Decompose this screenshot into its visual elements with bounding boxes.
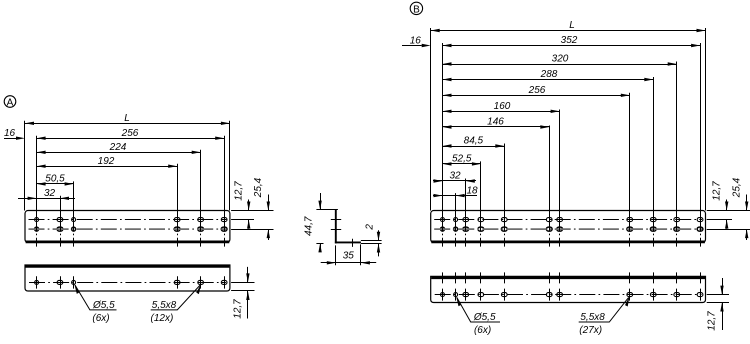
svg-text:5,5x8: 5,5x8 [580,312,605,323]
dimension 288 variant B [443,79,654,81]
dimension 192 variant A [37,166,178,168]
front view B row1 hole 10 (slot 5,5x8) [674,218,680,222]
svg-text:146: 146 [487,117,504,128]
svg-text:12,7: 12,7 [233,299,244,319]
front view A row2 hole 6 (slot 5,5x8) [221,227,227,231]
dimension 12,7 bottom A [247,267,249,283]
dimension 146 variant B [443,126,550,128]
bottom view B upper column tick 3 [465,272,467,283]
bottom view B hole centermark 3 [465,289,467,301]
extension line hole5 A [200,150,202,211]
dimension 12,7 bottom B [722,278,724,295]
dimension 224 variant A [37,152,201,154]
front view A row2 hole 1 (round Dia5,5) [35,227,39,231]
front view A row2 hole 5 (slot 5,5x8) [198,227,204,231]
front view B hole column centerline 10 [676,211,678,247]
extension line hole8 B [629,93,631,211]
svg-text:5,5x8: 5,5x8 [152,300,177,311]
svg-text:160: 160 [494,101,511,112]
front view row1 centerline B [434,219,702,221]
bottom view B hole 3 (slot 5,5x8) [463,293,469,297]
front view B row2 hole 3 (slot 5,5x8) [463,227,469,231]
bottom view B hole 8 (slot 5,5x8) [627,293,633,297]
svg-text:25,4: 25,4 [253,177,264,198]
extension line hole2 B [455,193,457,211]
svg-text:320: 320 [552,54,569,65]
front view A row1 hole 3 (round Dia5,5) [72,218,76,222]
svg-text:Ø5,5: Ø5,5 [473,312,496,323]
svg-text:(12x): (12x) [151,313,174,324]
bottom view thick top edge A [26,265,230,268]
bottom view A hole 2 (slot 5,5x8) [57,280,63,284]
bottom view A hole centermark 5 [200,276,202,288]
bottom view B hole 5 (slot 5,5x8) [501,293,507,297]
svg-text:35: 35 [343,250,355,261]
leader slot 5,5x8 callout A [151,285,201,310]
front view B hole column centerline 7 [559,211,561,247]
dimension 44,7 section [320,193,322,210]
svg-text:192: 192 [98,156,115,167]
svg-text:Ø5,5: Ø5,5 [92,300,115,311]
front view B row1 hole 7 (slot 5,5x8) [557,218,563,222]
tick top edge right B [707,210,750,212]
front view B hole column centerline 9 [653,211,655,247]
front view outline B [431,211,706,243]
dimension 160 variant B [443,111,560,113]
section tick bottom for 2 [361,243,382,245]
tick row1 right B [707,219,732,221]
front view B row2 hole 6 (slot 5,5x8) [546,227,552,231]
dimension L variant A [25,123,230,125]
front view B row2 hole 10 (slot 5,5x8) [674,227,680,231]
bottom view outline B [431,276,706,302]
front view B row2 hole 4 (slot 5,5x8) [478,227,484,231]
dimension 256 variant B [443,95,630,97]
extension line right edge B [705,28,707,211]
dimension 35 section [321,262,377,264]
front view A row1 hole 2 (slot 5,5x8) [57,218,63,222]
front view B row1 hole 8 (slot 5,5x8) [627,218,633,222]
svg-text:32: 32 [44,188,56,199]
dimension 12,7 front B [726,200,728,211]
front view B hole column centerline 5 [504,211,506,247]
svg-text:L: L [569,20,575,31]
bottom view thick top edge B [431,276,705,279]
tick hole row right bottom B [707,294,729,296]
dimension 256 variant A [37,138,225,140]
front view A row1 hole 1 (round Dia5,5) [35,218,39,222]
section tick bottom for 44,7 [316,243,323,245]
svg-text:256: 256 [121,128,139,139]
bottom view B upper column tick 1 [442,272,444,283]
section vertical leg [335,210,337,244]
bottom view B upper column tick 8 [629,272,631,283]
svg-text:44,7: 44,7 [303,216,314,236]
bottom view B hole 2 (round Dia5,5) [454,293,458,297]
dimension 16 variant B [402,45,422,47]
front view B row1 hole 1 (round Dia5,5) [441,218,445,222]
extension line hole5 B [504,144,506,212]
leader diameter 5,5 callout A [75,285,117,310]
extension line hole10 B [676,62,678,212]
front view A hole column centerline 3 [73,211,75,247]
front view B hole column centerline 4 [480,211,482,247]
bottom view B hole 4 (slot 5,5x8) [478,293,484,297]
front view B row1 hole 4 (slot 5,5x8) [478,218,484,222]
front view B row2 hole 8 (slot 5,5x8) [627,227,633,231]
svg-text:(6x): (6x) [474,325,491,336]
front view B row2 hole 2 (round Dia5,5) [454,227,458,231]
bottom view B hole centermark 6 [549,289,551,301]
bottom view centerline A [29,282,226,284]
svg-text:288: 288 [540,69,558,80]
bottom view A hole centermark 6 [224,276,226,288]
svg-text:A: A [7,97,14,108]
extension line hole6 A [224,136,226,211]
front view row2 centerline A (gray) [29,228,227,230]
front view A hole column centerline 1 [36,211,38,247]
front view A row1 hole 5 (slot 5,5x8) [198,218,204,222]
section hole tick row2 [331,229,341,231]
bottom view B hole centermark 8 [629,289,631,301]
front view B row2 hole 9 (slot 5,5x8) [650,227,656,231]
tick hole row right bottom A [231,282,254,284]
bottom view A hole 3 (round Dia5,5) [72,280,76,284]
bottom view B hole centermark 10 [676,289,678,301]
front view B row1 hole 3 (slot 5,5x8) [463,218,469,222]
extension line hole2 A [60,196,62,211]
dimension 25,4 front B [746,195,748,211]
bottom view A hole 1 (round Dia5,5) [35,280,39,284]
front view B row2 hole 1 (round Dia5,5) [441,227,445,231]
front view B row1 hole 5 (slot 5,5x8) [501,218,507,222]
front view B hole column centerline 11 [700,211,702,247]
svg-text:25,4: 25,4 [731,177,742,198]
dimension 52,5 variant B [443,163,481,165]
bottom view B hole 1 (round Dia5,5) [441,293,445,297]
front view A hole column centerline 2 [60,211,62,247]
section horizontal leg [335,241,361,243]
extension line hole4 B [480,161,482,211]
bottom view B hole centermark 9 [653,289,655,301]
extension line hole7 B [559,110,561,212]
svg-text:18: 18 [466,185,478,196]
front view B hole column centerline 8 [629,211,631,247]
front view B row2 hole 11 (slot 5,5x8) [697,227,703,231]
dimension 320 variant B [443,64,677,66]
tick top edge right A [231,210,273,212]
bottom view centerline B [435,294,702,296]
extension line hole11 B [700,43,702,211]
front view row1 centerline A [29,219,227,221]
dimension 32 variant B [433,180,476,182]
bottom view B upper column tick 9 [653,272,655,283]
svg-text:2: 2 [364,224,375,231]
svg-text:84,5: 84,5 [464,136,484,147]
section extension line right for 35 [360,244,362,265]
tick row2 right B [707,229,750,231]
section tick top for 2 [361,240,382,242]
bottom view A hole 6 (slot 5,5x8) [221,280,227,284]
bottom view B hole 7 (slot 5,5x8) [557,293,563,297]
front view A hole column centerline 6 [224,211,226,247]
bottom view B hole 9 (slot 5,5x8) [650,293,656,297]
front view B row2 hole 7 (slot 5,5x8) [557,227,563,231]
extension line hole3 A [73,181,75,211]
front view B row1 hole 9 (slot 5,5x8) [650,218,656,222]
front view B row1 hole 6 (slot 5,5x8) [546,218,552,222]
bottom view B upper column tick 7 [559,272,561,283]
svg-text:52,5: 52,5 [452,154,472,165]
bottom view B upper column tick 4 [480,272,482,283]
variant label A (circled) [4,96,16,109]
bottom view A hole centermark 3 [73,276,75,288]
extension line hole3 B [465,179,467,212]
front view B hole column centerline 3 [465,211,467,247]
tick bottom edge right bottom A [231,290,254,292]
bottom view B hole centermark 11 [700,289,702,301]
svg-text:12,7: 12,7 [707,311,718,331]
front view row2 centerline B (gray) [434,228,702,230]
svg-text:352: 352 [561,35,578,46]
bottom view B hole centermark 5 [504,289,506,301]
leader diameter 5,5 callout B [457,297,500,322]
svg-text:256: 256 [528,85,546,96]
dimension 18 variant B [433,195,477,197]
tick row2 right A [231,229,273,231]
front view B hole column centerline 2 [455,211,457,247]
svg-text:16: 16 [410,35,422,46]
svg-text:16: 16 [4,128,16,139]
bottom view B hole centermark 2 [455,289,457,301]
svg-text:50,5: 50,5 [45,174,65,185]
extension line hole6 B [549,126,551,212]
front view A row2 hole 3 (round Dia5,5) [72,227,76,231]
bottom view B hole 10 (slot 5,5x8) [674,293,680,297]
bottom view B hole centermark 1 [442,289,444,301]
bottom view B upper column tick 11 [700,272,702,283]
bottom view outline A [25,265,230,291]
front view A row2 hole 4 (slot 5,5x8) [174,227,180,231]
front view B row1 hole 11 (slot 5,5x8) [697,218,703,222]
leader slot 5,5x8 callout B [579,297,629,322]
section tick top for 44,7 [316,209,338,211]
svg-text:L: L [124,113,130,124]
extension line right edge A [229,121,231,211]
dimension 50,5 variant A [37,183,74,185]
bottom view B upper column tick 10 [676,272,678,283]
front view A row1 hole 4 (slot 5,5x8) [174,218,180,222]
section hole tick row1 [331,219,341,221]
front view B row2 hole 5 (slot 5,5x8) [501,227,507,231]
dimension 32 variant A [18,198,75,200]
svg-text:32: 32 [449,171,461,182]
variant label B (circled) [410,2,422,15]
dimension 16 variant A [4,138,16,140]
tick bottom edge right bottom B [707,302,729,304]
bottom view A hole 4 (slot 5,5x8) [174,280,180,284]
bottom view A hole centermark 1 [36,276,38,288]
bottom view B upper column tick 6 [549,272,551,283]
front view B hole column centerline 6 [549,211,551,247]
dimension 25,4 front A [268,195,270,211]
extension line left edge B [430,28,432,211]
bottom view B hole centermark 4 [480,289,482,301]
section hole tick horizontal leg [352,239,354,247]
dimension 84,5 variant B [443,146,505,148]
svg-text:(27x): (27x) [579,325,602,336]
extension line hole1 A [36,136,38,211]
bottom view A hole centermark 2 [60,276,62,288]
front view A hole column centerline 5 [200,211,202,247]
bottom view B upper column tick 5 [504,272,506,283]
svg-text:12,7: 12,7 [711,181,722,201]
bottom view B hole 11 (slot 5,5x8) [697,293,703,297]
dimension 352 variant B [443,45,701,47]
svg-text:B: B [413,4,420,15]
dimension 12,7 front A [248,200,250,211]
extension line hole9 B [653,77,655,211]
bottom view A hole centermark 4 [177,276,179,288]
front view A hole column centerline 4 [177,211,179,247]
extension line left edge A [24,121,26,211]
svg-text:(6x): (6x) [92,313,109,324]
bottom view B upper column tick 2 [455,272,457,283]
front view thick bottom edge A [26,241,230,244]
dimension L variant B [431,30,706,32]
tick row1 right A [231,219,254,221]
bottom view A hole 5 (slot 5,5x8) [198,280,204,284]
front view B hole column centerline 1 [442,211,444,247]
section extension line left for 35 [335,245,337,265]
extension line hole1 B [442,43,444,211]
extension line hole4 A [177,164,179,211]
front view outline A [25,211,230,243]
svg-text:12,7: 12,7 [233,181,244,201]
front view A row1 hole 6 (slot 5,5x8) [221,218,227,222]
front view thick bottom edge B [431,241,705,244]
dimension 2 section [378,230,380,241]
bottom view B hole centermark 7 [559,289,561,301]
bottom view B hole 6 (slot 5,5x8) [546,293,552,297]
front view A row2 hole 2 (slot 5,5x8) [57,227,63,231]
front view B row1 hole 2 (round Dia5,5) [454,218,458,222]
svg-text:224: 224 [109,142,127,153]
